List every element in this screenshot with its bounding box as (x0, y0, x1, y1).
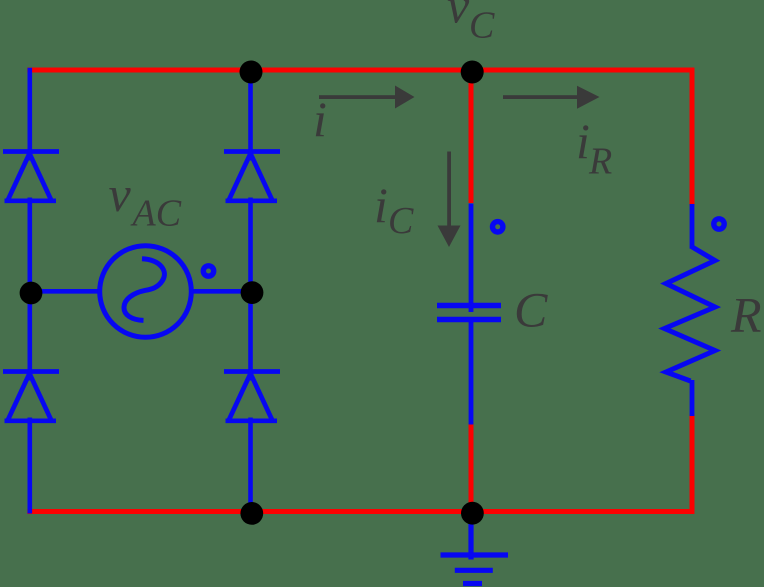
svg-text:AC: AC (130, 193, 182, 235)
wire middle bridge leg blue (248, 70, 253, 512)
ground (441, 513, 509, 584)
probe ring near resistor (714, 219, 724, 229)
svg-text:C: C (469, 5, 495, 47)
wire capacitor branch red upper (469, 70, 474, 203)
wire left bridge leg blue (27, 68, 32, 514)
wire right red lower segment (690, 414, 695, 514)
current arrow iR (503, 86, 600, 109)
diode D3 lower-left (3, 372, 59, 421)
AC source V1 circle (100, 246, 192, 338)
svg-text:v: v (109, 166, 132, 222)
svg-text:v: v (447, 0, 470, 34)
node dot mid left (20, 282, 43, 305)
svg-text:i: i (313, 91, 327, 147)
svg-text:R: R (588, 141, 612, 183)
svg-text:i: i (576, 113, 590, 169)
node dot top bridge (240, 61, 263, 84)
svg-text:i: i (374, 177, 388, 233)
node dot top capacitor vC (461, 61, 484, 84)
current arrow iC (438, 152, 461, 248)
svg-text:C: C (388, 200, 414, 242)
diode D2 upper-middle (224, 152, 280, 201)
wire capacitor branch blue upper (469, 204, 474, 313)
wire resistor top lead blue (690, 204, 695, 247)
svg-text:C: C (514, 282, 548, 338)
label iC (374, 177, 414, 242)
svg-text:R: R (730, 287, 762, 343)
wire capacitor branch blue lower (469, 320, 474, 425)
label iR (576, 113, 612, 183)
wire source left lead (30, 289, 101, 294)
wire capacitor branch red lower (469, 424, 474, 514)
wire source right lead (191, 289, 252, 294)
AC source V1 sine wave (124, 259, 164, 321)
capacitor C plates (437, 306, 501, 320)
resistor R zigzag (665, 246, 716, 381)
wire resistor bottom lead blue (690, 380, 695, 416)
probe ring near source (203, 266, 213, 276)
label vAC (109, 166, 182, 235)
wire top red bus (27, 68, 694, 73)
diode D1 upper-left (3, 152, 59, 201)
diode D4 lower-middle (224, 372, 280, 421)
label vC top node (447, 0, 495, 47)
node dot mid right (241, 281, 264, 304)
wire right red upper segment (690, 68, 695, 206)
wire bottom red bus (27, 509, 694, 514)
current arrow i (319, 86, 415, 109)
probe ring near capacitor (493, 222, 503, 232)
node dot bottom ground (461, 502, 484, 525)
node dot bottom bridge (240, 502, 263, 525)
